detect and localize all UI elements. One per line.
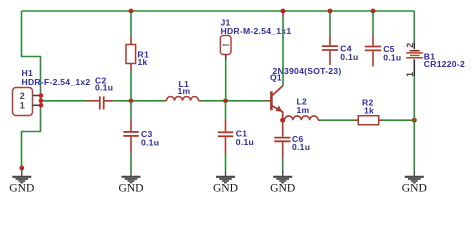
wire L2 to R2 (320, 119, 355, 121)
wire C6 to ground (282, 158, 284, 172)
wire top rail to R1 (130, 12, 132, 37)
svg-text:GND: GND (402, 182, 427, 195)
svg-text:0.1u: 0.1u (236, 137, 254, 147)
svg-text:GND: GND (9, 182, 34, 195)
svg-text:1k: 1k (364, 105, 374, 115)
node top rail collector (281, 9, 286, 14)
capacitor C4 (322, 35, 338, 65)
svg-text:0.1u: 0.1u (383, 53, 401, 63)
svg-text:CR1220-2: CR1220-2 (424, 59, 465, 69)
ground GND4 (273, 171, 292, 183)
svg-text:2: 2 (20, 91, 25, 101)
battery B1 (406, 43, 423, 77)
wire R2 to right rail (382, 119, 414, 121)
capacitor C1 (218, 120, 233, 155)
capacitor C3 (123, 120, 138, 155)
wire C1 to ground (225, 154, 227, 171)
inductor L2 (285, 116, 321, 120)
wire right rail upper (413, 11, 415, 43)
svg-text:0.1u: 0.1u (141, 138, 159, 148)
node left gnd dot (19, 166, 24, 171)
wire C3 to ground (130, 154, 132, 171)
svg-text:1m: 1m (178, 86, 191, 96)
wire collector to top rail (282, 17, 284, 86)
resistor R1 (126, 37, 136, 72)
node H1 pin1 pad (39, 103, 44, 108)
wire R1 to middle rail (130, 72, 132, 101)
ground GND2 (122, 171, 141, 183)
wire top rail to C4 (329, 12, 331, 35)
wire C1 upper (225, 102, 227, 120)
node H1 pin2 pad (39, 93, 44, 98)
ground GND1 (12, 168, 31, 183)
node C5 top (371, 9, 376, 14)
capacitor C2 (87, 96, 114, 109)
wire C3 upper (130, 102, 132, 120)
svg-text:GND: GND (118, 182, 143, 195)
svg-text:1m: 1m (297, 105, 310, 115)
node emitter junction (280, 118, 285, 123)
svg-text:0.1u: 0.1u (95, 83, 113, 93)
capacitor C6 (274, 120, 290, 157)
wire J1 to middle rail (225, 59, 227, 100)
capacitor C5 (365, 36, 381, 67)
connector H1 (13, 88, 40, 116)
node R1/C3 junction (129, 98, 134, 103)
svg-text:GND: GND (270, 182, 295, 195)
svg-text:Q1: Q1 (270, 73, 282, 83)
svg-text:1: 1 (20, 101, 25, 111)
wire top rail to C5 (372, 12, 374, 36)
node C4 top (328, 9, 333, 14)
wire left drop from top rail (22, 11, 41, 168)
svg-text:1k: 1k (138, 57, 148, 67)
svg-text:0.1u: 0.1u (340, 52, 358, 62)
connector J1 (220, 36, 231, 60)
svg-text:GND: GND (213, 182, 238, 195)
ground GND3 (216, 171, 235, 183)
wire right rail lower (413, 76, 415, 171)
ground GND5 (405, 171, 424, 183)
inductor L1 (165, 97, 202, 101)
transistor Q1 emitter arrow (276, 106, 283, 112)
resistor R2 (355, 116, 382, 125)
transistor Q1 (267, 86, 284, 119)
svg-text:2: 2 (405, 43, 415, 48)
svg-text:HDR-M-2.54_1x1: HDR-M-2.54_1x1 (221, 26, 292, 36)
node top rail R1 (129, 9, 134, 14)
node H1 junction (39, 98, 44, 103)
svg-text:0.1u: 0.1u (292, 142, 310, 152)
wire middle rail H1 to C2 (43, 100, 86, 102)
svg-text:HDR-F-2.54_1x2: HDR-F-2.54_1x2 (22, 77, 91, 87)
node right rail junction (412, 118, 417, 123)
wire L1 to junction (201, 100, 267, 102)
wire top rail (22, 10, 415, 12)
pin collector stub (282, 12, 284, 18)
node J1/C1 junction (223, 98, 228, 103)
wire C2 to L1 (113, 100, 165, 102)
